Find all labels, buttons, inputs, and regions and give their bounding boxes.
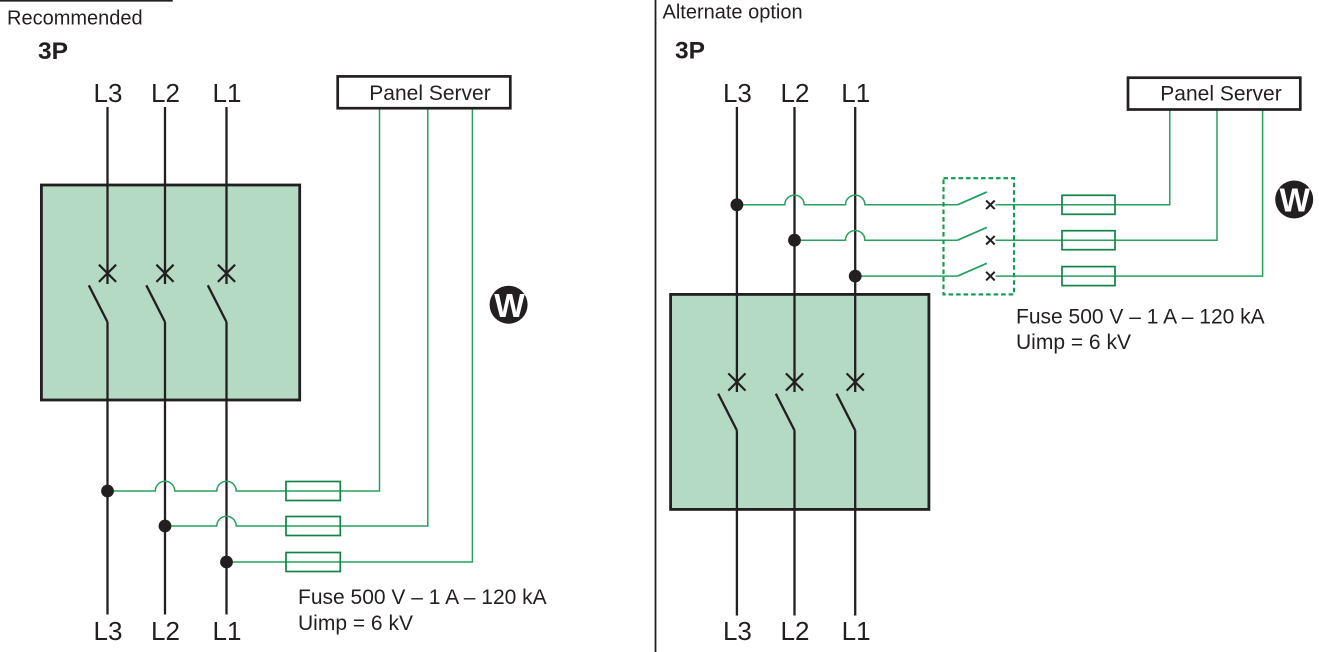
switch contact cross row 1 (right) [986,201,995,210]
wire switch to fuse to panel server row 2 (right) [996,110,1218,241]
W wireless meter icon (left) [490,286,528,324]
wire phase L2 (right) [793,107,795,616]
svg-text:L1: L1 [842,616,871,646]
svg-text:Panel Server: Panel Server [1160,82,1281,105]
fuse F3 (right, row 3) [1062,267,1115,286]
wire tap L1 to fuse to panel server (left) [227,108,473,562]
switch blade row 3 (right) [958,263,987,276]
fuse F2 (right, row 2) [1062,231,1115,250]
Panel Server box (right) [1128,78,1300,110]
breaker blade L2 (right) [776,394,795,431]
svg-text:L3: L3 [94,78,123,108]
svg-text:L2: L2 [781,616,810,646]
wire tap L2 to fuse to panel server (left) [165,108,428,526]
breaker box (left 3P circuit breaker) [41,185,299,400]
svg-text:Uimp = 6 kV: Uimp = 6 kV [298,612,413,635]
svg-text:Recommended: Recommended [7,8,143,30]
panel divider line [655,0,657,652]
svg-text:W: W [1280,181,1311,218]
disconnect switch enclosure (dashed box) [944,178,1015,294]
breaker contact cross L2 (right) [786,373,803,390]
svg-text:L2: L2 [781,78,810,108]
fuse F1 (left, row L3) [286,482,340,501]
junction node L1 (left) [220,556,233,569]
Panel Server box (left) [338,76,511,108]
wire tap L1 to switch (right) [855,275,957,277]
svg-text:L2: L2 [151,78,180,108]
breaker contact cross L3 (left) [99,265,116,282]
svg-text:Fuse 500 V – 1 A – 120 kA: Fuse 500 V – 1 A – 120 kA [298,586,547,609]
switch blade row 1 (right) [958,192,987,205]
breaker contact cross L1 (left) [218,265,235,282]
W wireless meter icon (right) [1275,181,1313,219]
junction node L2 (right) [788,234,801,247]
wire phase L3 (right) [736,107,738,616]
breaker blade L2 (left) [146,285,165,322]
wire phase L1 (right) [854,107,856,616]
wire phase L3 (left) [106,107,108,615]
svg-text:Panel Server: Panel Server [369,82,490,105]
svg-text:L1: L1 [213,78,242,108]
wire switch to fuse to panel server row 1 (right) [996,110,1170,205]
svg-text:3P: 3P [675,38,705,65]
fuse F3 (left, row L1) [286,553,340,572]
breaker contact cross L3 (right) [728,373,745,390]
fuse F2 (left, row L2) [286,517,340,536]
svg-text:L2: L2 [151,616,180,646]
switch contact cross row 3 (right) [986,272,995,281]
wire phase L1 (left) [225,107,227,615]
top border remnant line (left panel) [0,0,173,2]
junction node L1 (right) [849,270,862,283]
wire switch to fuse to panel server row 3 (right) [996,110,1263,277]
wire tap L2 to switch (right) [795,230,958,240]
junction node L3 (right) [731,198,744,211]
svg-text:Alternate option: Alternate option [663,2,803,24]
svg-text:Uimp = 6 kV: Uimp = 6 kV [1016,331,1131,354]
wire tap L3 to fuse to panel server (left) [108,108,380,491]
svg-text:3P: 3P [38,38,68,65]
breaker blade L1 (left) [208,285,227,322]
svg-text:W: W [494,287,525,324]
breaker box (right 3P circuit breaker) [671,294,929,509]
svg-text:L1: L1 [841,78,870,108]
wire phase L2 (left) [164,107,166,615]
svg-text:L3: L3 [723,616,752,646]
svg-text:L3: L3 [94,616,123,646]
breaker blade L3 (right) [718,394,737,431]
breaker contact cross L2 (left) [156,265,173,282]
breaker blade L1 (right) [837,394,856,431]
junction node L2 (left) [159,520,172,533]
breaker contact cross L1 (right) [847,373,864,390]
switch blade row 2 (right) [958,227,987,240]
switch contact cross row 2 (right) [986,236,995,245]
wire tap L3 to switch (right) [737,195,958,205]
breaker blade L3 (left) [89,285,108,322]
svg-text:L3: L3 [723,78,752,108]
fuse F1 (right, row 1) [1062,195,1115,214]
svg-text:Fuse 500 V – 1 A – 120 kA: Fuse 500 V – 1 A – 120 kA [1016,306,1265,329]
svg-text:L1: L1 [213,616,242,646]
junction node L3 (left) [101,485,114,498]
